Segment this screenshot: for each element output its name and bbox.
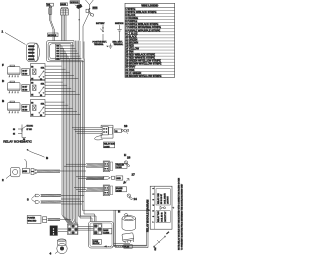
svg-text:30: 30 [40,95,42,97]
ignition symbol [113,23,125,46]
grid connector left of panel [68,224,78,234]
grommet label [22,169,29,174]
svg-text:TAIL: TAIL [47,4,51,7]
svg-text:F: F [2,63,4,67]
two-line label box [103,142,115,148]
svg-text:23 BROWN W/YELLOW STRIPE: 23 BROWN W/YELLOW STRIPE [125,75,161,78]
svg-text:TERMINAL: TERMINAL [114,43,124,46]
svg-text:86: 86 [31,83,33,85]
svg-text:POWER: POWER [28,218,36,220]
arrow icon 17 [123,173,135,185]
wiring loop [47,41,85,62]
round sender unit [50,239,68,256]
module feed wires [82,209,150,245]
svg-text:86 87: 86 87 [22,70,27,72]
relay schematic legend [13,125,34,142]
mid-right label [115,129,122,133]
svg-text:30: 30 [40,79,42,81]
svg-text:COIL DRIVE: COIL DRIVE [164,193,166,204]
svg-text:85 30: 85 30 [22,73,27,75]
wing-nut icon 16 [122,124,129,134]
svg-text:MODULE: MODULE [48,35,57,37]
svg-text:RELAY TWO: RELAY TWO [157,211,160,222]
svg-text:4: 4 [50,252,52,256]
screw icon 18 [124,156,130,167]
rotated inner box 1 [156,189,170,205]
svg-text:CONN: CONN [104,233,110,235]
branch arrows item 3 [27,194,40,203]
svg-text:86: 86 [31,67,33,69]
right row3 connector [103,185,113,196]
rotated switch under box [153,231,169,250]
svg-text:87A: 87A [41,103,45,106]
connector label C [70,1,80,4]
svg-text:85 86 30 87: 85 86 30 87 [161,194,163,204]
svg-text:BATTERY: BATTERY [96,22,105,25]
relay B wires [45,101,64,103]
relay D schematic box [31,80,46,97]
svg-text:D: D [2,79,5,83]
relay F schematic box [31,64,46,81]
wire branches left [58,171,86,232]
svg-text:30: 30 [40,115,42,117]
connector A [49,6,52,14]
svg-text:GRN: GRN [93,8,98,10]
svg-text:85: 85 [13,133,15,135]
twisted cable arrow2 [41,201,62,203]
svg-text:CONN: CONN [116,190,122,192]
svg-text:87A: 87A [41,67,45,70]
vertical wire pairs right [114,210,148,247]
svg-text:NOTE: RELAY MODULE MUST BE MOU: NOTE: RELAY MODULE MUST BE MOUNTED WITH … [178,177,181,250]
relay F cube icon [8,65,21,77]
svg-text:17: 17 [132,173,136,177]
svg-text:87 NO: 87 NO [27,129,33,131]
right row1 label [116,163,128,169]
relay F terminal box [22,69,30,76]
svg-text:GND: GND [117,178,122,180]
label box lower-left [27,216,41,224]
relay B schematic box [31,100,46,117]
svg-text:18: 18 [127,156,131,160]
grommet terminals [31,169,36,175]
svg-text:WIRE LEGEND: WIRE LEGEND [141,5,158,8]
svg-text:B: B [46,156,49,160]
wire branches right [64,128,103,192]
svg-text:OUTPUT: OUTPUT [168,195,170,204]
wire [50,15,55,41]
mid-right connector [95,125,113,140]
svg-text:SW: SW [155,247,157,250]
panel label 2 [93,239,102,245]
label box MODULE [48,33,59,37]
svg-text:HARN: HARN [61,3,67,6]
rotated symbol between [160,206,166,209]
svg-text:87A NC: 87A NC [27,125,34,128]
dark connector [75,4,82,9]
rotated module outer box [150,186,172,229]
right row1 connector [103,161,113,172]
relay B terminal box [22,105,30,112]
module arrow right [172,207,174,209]
svg-text:TO PREVENT MOISTURE FROM ENTER: TO PREVENT MOISTURE FROM ENTERING THE MO… [182,183,184,250]
svg-text:RELAY SCHEMATIC: RELAY SCHEMATIC [3,140,32,144]
black connector [50,226,57,236]
grommet component [2,159,27,182]
small label [93,7,98,10]
relay D wires [45,81,63,83]
svg-text:3: 3 [153,199,155,200]
svg-text:FLSH: FLSH [124,247,129,249]
svg-text:BLOCK: BLOCK [93,243,100,245]
svg-text:86 87: 86 87 [22,86,27,88]
right row3 label [116,187,127,193]
right row3 cable [86,188,103,191]
svg-text:5: 5 [153,210,155,211]
svg-text:RELAY ONE: RELAY ONE [157,193,160,204]
screw icon 14 [127,194,137,201]
svg-text:H: H [124,153,126,157]
svg-text:14: 14 [134,197,138,201]
connector lower-left [43,217,47,223]
right row2 spade [103,176,114,179]
right row2 cable [86,177,104,180]
svg-text:1: 1 [2,30,4,34]
svg-text:7: 7 [153,222,155,223]
svg-text:CONN: CONN [116,167,122,169]
svg-text:86: 86 [13,129,15,131]
svg-text:3: 3 [27,198,29,202]
svg-text:CONN: CONN [104,146,110,148]
twisted cable lower-left [48,219,61,221]
relay B cube icon [8,101,21,113]
wire bundle verticals [60,41,96,225]
connector link wires [78,227,94,231]
rotated note text [178,177,184,250]
svg-text:1: 1 [153,188,155,189]
ground symbol [107,44,113,49]
cylinder component H [118,210,136,231]
wire V at top [83,0,93,59]
svg-text:4: 4 [153,205,155,206]
panel label [103,229,112,235]
rotated module pin row [153,186,155,229]
twisted cable grommet [37,170,61,172]
svg-text:OUTPUT 87: OUTPUT 87 [165,212,167,222]
wire with junction dot [78,9,80,41]
svg-text:B: B [2,99,5,103]
svg-text:87A: 87A [41,83,45,86]
svg-text:RELAY MOD: RELAY MOD [104,143,116,146]
svg-text:MODULE: MODULE [70,2,79,4]
svg-text:86 87: 86 87 [22,106,27,108]
pigtail B [27,149,49,160]
battery symbol [93,22,108,46]
relay F wires [45,65,62,67]
relay cube bottom [122,233,134,244]
dashed lead with arrow [104,245,124,247]
wire [62,15,67,41]
svg-text:GRN: GRN [23,171,28,173]
svg-text:85 30: 85 30 [22,109,27,111]
twisted cable arrow1 [41,194,62,196]
svg-text:C2: C2 [115,131,117,133]
svg-text:2: 2 [2,178,4,182]
connector label A [46,3,53,6]
connector B grid [61,8,69,16]
right row2 label [116,176,123,180]
pointer label 1 [2,30,26,45]
svg-text:IGNITION: IGNITION [115,23,124,25]
relay D cube icon [8,81,21,93]
svg-text:85: 85 [31,94,33,96]
rotated inner box 2 [156,211,170,223]
relay D terminal box [22,85,30,92]
svg-text:85 30: 85 30 [22,89,27,91]
wire color legend table [125,3,175,78]
bottom label box [124,245,132,249]
svg-text:GROUND: GROUND [28,221,37,223]
svg-text:2: 2 [153,194,155,195]
panel pin grid [94,224,102,235]
svg-text:6: 6 [153,216,155,217]
connector label B [60,3,67,6]
svg-text:86: 86 [31,103,33,105]
svg-text:16: 16 [124,124,128,128]
right row1 cable [86,164,103,167]
multi-pin connector P1 [27,43,40,62]
svg-text:85: 85 [31,114,33,116]
svg-text:COIL 85 86: COIL 85 86 [162,212,164,222]
bracket icon [86,9,94,16]
svg-text:TERMINAL: TERMINAL [94,43,104,46]
wires from pin strip [60,45,74,47]
svg-text:RELAY MODULE DIAGRAM: RELAY MODULE DIAGRAM [146,200,149,232]
harness panel [89,222,114,249]
